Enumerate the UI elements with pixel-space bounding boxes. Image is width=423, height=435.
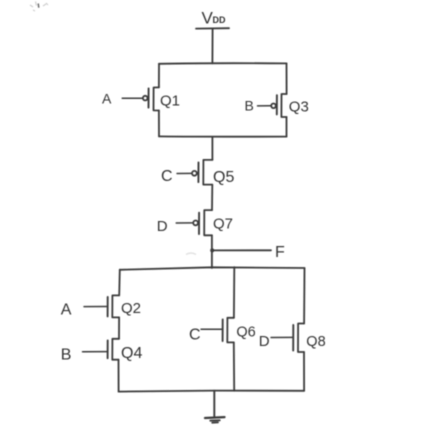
svg-text:Q3: Q3 [289,99,309,116]
svg-text:A: A [102,90,112,106]
svg-text:F: F [275,244,285,261]
svg-text:Q2: Q2 [121,300,141,317]
svg-text:Q8: Q8 [306,334,325,350]
svg-text:B: B [245,97,254,113]
svg-text:B: B [61,347,72,364]
svg-text:A: A [61,302,72,319]
svg-text:D: D [157,218,168,235]
svg-text:Q1: Q1 [160,92,180,109]
svg-text:Q7: Q7 [213,216,233,233]
svg-text:C: C [161,168,173,185]
svg-text:D: D [259,333,270,350]
svg-text:C: C [189,327,201,344]
svg-text:Q5: Q5 [213,169,234,186]
svg-text:DD: DD [213,15,226,25]
svg-text:Q6: Q6 [236,325,255,341]
svg-text:Q4: Q4 [121,345,142,362]
